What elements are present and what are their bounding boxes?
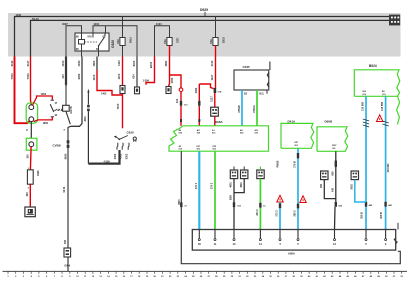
wire W16 red (15, 57, 31, 124)
wire bus1 (15, 17, 393, 57)
shield connector J4 (321, 171, 328, 180)
power distribution band (8, 13, 401, 57)
svg-text:57A: 57A (218, 90, 222, 93)
svg-text:379 2: 379 2 (211, 182, 214, 189)
wire black J4 merge (324, 180, 336, 199)
svg-text:4601: 4601 (230, 182, 233, 188)
wire green D96A to pin11 (214, 151, 216, 229)
wire green B11 (256, 90, 258, 126)
svg-text:1403: 1403 (101, 92, 107, 95)
svg-text:1S21: 1S21 (176, 38, 179, 44)
wire bus3b 1104 (93, 26, 137, 57)
wire black D90B (335, 151, 337, 202)
svg-text:D41A: D41A (288, 119, 297, 123)
svg-text:4801: 4801 (240, 182, 243, 188)
wire cyan D41A to pin5 (297, 148, 299, 229)
pin 18 of A26A (198, 230, 200, 239)
svg-text:430: 430 (331, 187, 334, 192)
connector C/VB pins (67, 140, 70, 143)
inline shield connector on fuse3 wire (211, 107, 219, 116)
svg-text:376 B: 376 B (294, 161, 297, 168)
svg-text:163: 163 (25, 192, 29, 197)
svg-text:4F03: 4F03 (61, 60, 65, 66)
ECU C535 box (234, 70, 269, 90)
wire W82 (71, 57, 83, 127)
pin 4 of A26A (279, 230, 281, 239)
wire cyan B924 pin B10 (365, 96, 367, 229)
svg-text:15A: 15A (209, 39, 213, 44)
wire to resistor (29, 147, 32, 170)
svg-text:318 588: 318 588 (381, 101, 384, 111)
svg-text:3002: 3002 (350, 184, 353, 190)
ground rail ruler (3, 270, 407, 272)
wire cyan to pin4 (279, 202, 281, 230)
pin 14 of A26A (259, 230, 261, 239)
wire red to C620 (122, 94, 124, 129)
svg-text:52-10: 52-10 (32, 17, 39, 21)
svg-text:15A: 15A (116, 39, 120, 44)
wire to pin12 (334, 207, 337, 230)
warning triangle T3 (377, 115, 383, 122)
motor M1 box (25, 207, 35, 217)
svg-text:9TN/B: 9TN/B (238, 105, 241, 112)
svg-text:369 B: 369 B (361, 212, 364, 219)
switch C620 stubs (116, 143, 119, 150)
svg-text:624: 624 (132, 74, 136, 79)
wire trunk down from contact junction (68, 126, 71, 271)
fuse F3 (215, 17, 217, 38)
svg-text:370 4: 370 4 (195, 182, 198, 189)
node C/1015 green housing (26, 103, 37, 123)
svg-text:BB3: BB3 (178, 199, 181, 205)
svg-text:122: 122 (175, 98, 179, 103)
svg-text:PN/55: PN/55 (277, 160, 280, 167)
wire W97 red elbow (97, 70, 123, 95)
junction pin on 181 (180, 101, 182, 106)
svg-text:401: 401 (61, 74, 65, 79)
svg-text:1103: 1103 (92, 74, 96, 80)
svg-text:D96A: D96A (215, 120, 224, 124)
warning triangle T1 (277, 195, 283, 202)
svg-text:5302: 5302 (126, 153, 129, 159)
wire W32 red (30, 57, 33, 105)
svg-text:15A: 15A (163, 39, 167, 44)
wire black J1 J2 merge to pin10 (233, 179, 235, 230)
svg-text:1127: 1127 (210, 74, 214, 80)
wire W66 thick feed (65, 57, 67, 84)
svg-text:318 684: 318 684 (387, 163, 390, 172)
relay G076 feed arrow end is above; coil (63, 105, 70, 111)
twisted pair mark (382, 121, 388, 126)
wire bus3a 4097 (66, 26, 82, 57)
wire W97 black stub (96, 57, 98, 71)
control unit D96A green box (169, 126, 269, 151)
svg-text:368 B: 368 B (380, 212, 383, 219)
svg-text:Y053: Y053 (26, 73, 30, 80)
svg-text:G906: G906 (64, 265, 71, 268)
relay K1 pin86 wire (81, 26, 83, 40)
connector C204 (135, 87, 140, 94)
terminal circle lower (29, 117, 34, 122)
relay G076 contact diagonal (66, 111, 70, 124)
resistor R1 (27, 170, 33, 184)
pin 11 of A26A (214, 230, 216, 239)
connector C828 (166, 87, 171, 94)
svg-text:1-204: 1-204 (143, 80, 150, 83)
switch S47/94 (51, 99, 54, 101)
wire W88 (87, 89, 89, 93)
svg-text:9650: 9650 (64, 153, 68, 159)
twisted pair mark (363, 119, 369, 127)
terminal circle upper (29, 105, 34, 110)
svg-text:9TN/G: 9TN/G (253, 105, 256, 112)
svg-text:87A: 87A (88, 36, 93, 39)
wire thick ground L (88, 150, 119, 164)
svg-text:4F63: 4F63 (77, 60, 81, 66)
svg-text:G076: G076 (69, 106, 73, 114)
pin 9 of A26A (385, 230, 387, 239)
shield connector J5 (351, 171, 358, 180)
wire ground wrap from D96A (181, 151, 400, 264)
pin 5 of A26A (297, 230, 299, 239)
shield connector J2 (241, 170, 248, 179)
shield connector J3 (257, 170, 264, 179)
svg-text:4803: 4803 (92, 60, 96, 66)
wire cyan B2 (241, 90, 243, 126)
sensor D41A green box (281, 123, 314, 148)
junction 57A (214, 88, 217, 93)
svg-text:9063: 9063 (77, 73, 81, 79)
connector box A26A (192, 230, 395, 251)
svg-text:99 31: 99 31 (63, 186, 66, 193)
svg-text:650: 650 (331, 171, 334, 176)
sensor D90B green box (317, 127, 348, 152)
wire 1353 red bracket to switch (33, 96, 53, 105)
svg-text:BSA: BSA (230, 195, 233, 200)
wire cyan D96A to pin18 (198, 151, 200, 229)
svg-text:2410: 2410 (210, 60, 214, 66)
svg-text:206: 206 (64, 239, 67, 244)
svg-text:1140: 1140 (117, 60, 121, 66)
wire green J3 to pin14 (259, 179, 261, 230)
wire bus3c 1104 (155, 26, 170, 57)
relay K1 contact (92, 33, 94, 38)
amplifier B924 green box (354, 70, 400, 97)
pin 2 of A26A (365, 230, 367, 239)
svg-text:D929: D929 (200, 8, 208, 12)
inline connector G906 on trunk (64, 248, 71, 257)
svg-text:5417: 5417 (26, 60, 30, 66)
svg-text:C620: C620 (127, 130, 135, 134)
warning triangle T2 (300, 196, 306, 203)
svg-text:5410: 5410 (10, 60, 14, 66)
svg-text:1100: 1100 (117, 73, 121, 79)
svg-text:F003: F003 (129, 38, 132, 44)
svg-text:B403: B403 (149, 61, 153, 68)
svg-text:204 2: 204 2 (256, 209, 259, 216)
svg-text:100: 100 (26, 154, 30, 159)
svg-text:4091: 4091 (84, 116, 87, 122)
svg-text:1351: 1351 (170, 77, 174, 83)
svg-text:B11: B11 (260, 93, 265, 96)
fuse F1 (122, 17, 124, 57)
branch to 181 (170, 75, 182, 88)
svg-text:319 589: 319 589 (361, 101, 364, 111)
relay K1 coil (79, 40, 85, 45)
svg-text:1100: 1100 (16, 13, 22, 17)
svg-text:C535: C535 (243, 65, 251, 69)
pin 12 of A26A (334, 230, 336, 239)
connector housing green square (26, 138, 37, 150)
svg-text:1127: 1127 (209, 96, 213, 102)
svg-text:G626: G626 (111, 40, 115, 48)
svg-text:8403: 8403 (132, 60, 136, 66)
svg-text:B924: B924 (369, 64, 377, 68)
svg-text:(30): (30) (363, 94, 367, 96)
svg-text:3851: 3851 (164, 60, 168, 66)
svg-text:7100: 7100 (116, 103, 120, 109)
terminal circle (29, 142, 34, 147)
splice circle on 181 (179, 88, 183, 92)
fuse F2 (167, 38, 172, 46)
pin 10 of A26A (233, 230, 235, 239)
wire 1800 red return (34, 117, 53, 122)
connector at right end of buses (389, 15, 400, 26)
svg-text:E023: E023 (222, 38, 225, 44)
svg-text:(31): (31) (382, 94, 386, 96)
svg-text:9063: 9063 (36, 171, 39, 177)
svg-text:A26A: A26A (288, 251, 295, 255)
svg-text:CVB8: CVB8 (53, 144, 61, 148)
svg-text:1104: 1104 (156, 22, 162, 26)
svg-text:4097: 4097 (62, 22, 68, 26)
svg-text:450: 450 (320, 183, 323, 188)
wire bus2 (31, 20, 391, 56)
svg-text:380 2: 380 2 (294, 210, 297, 217)
connector C28 (120, 86, 125, 94)
svg-text:1800: 1800 (43, 122, 49, 125)
svg-text:1104: 1104 (94, 22, 100, 26)
svg-text:2302: 2302 (114, 153, 117, 159)
wire to motor box (29, 184, 31, 207)
wire cyan B924 pin B9 (385, 96, 387, 229)
svg-text:Y003: Y003 (10, 73, 14, 80)
svg-text:1353: 1353 (41, 93, 47, 96)
svg-text:372 2: 372 2 (276, 210, 279, 217)
shield connector J1 (230, 170, 237, 179)
svg-text:1381: 1381 (194, 87, 198, 93)
svg-text:4-309: 4-309 (104, 161, 111, 164)
wire from lower terminal down (30, 122, 32, 139)
wire cyan J5 merge (355, 180, 366, 202)
svg-text:D90B: D90B (325, 120, 334, 124)
relay K1 box (75, 33, 109, 51)
